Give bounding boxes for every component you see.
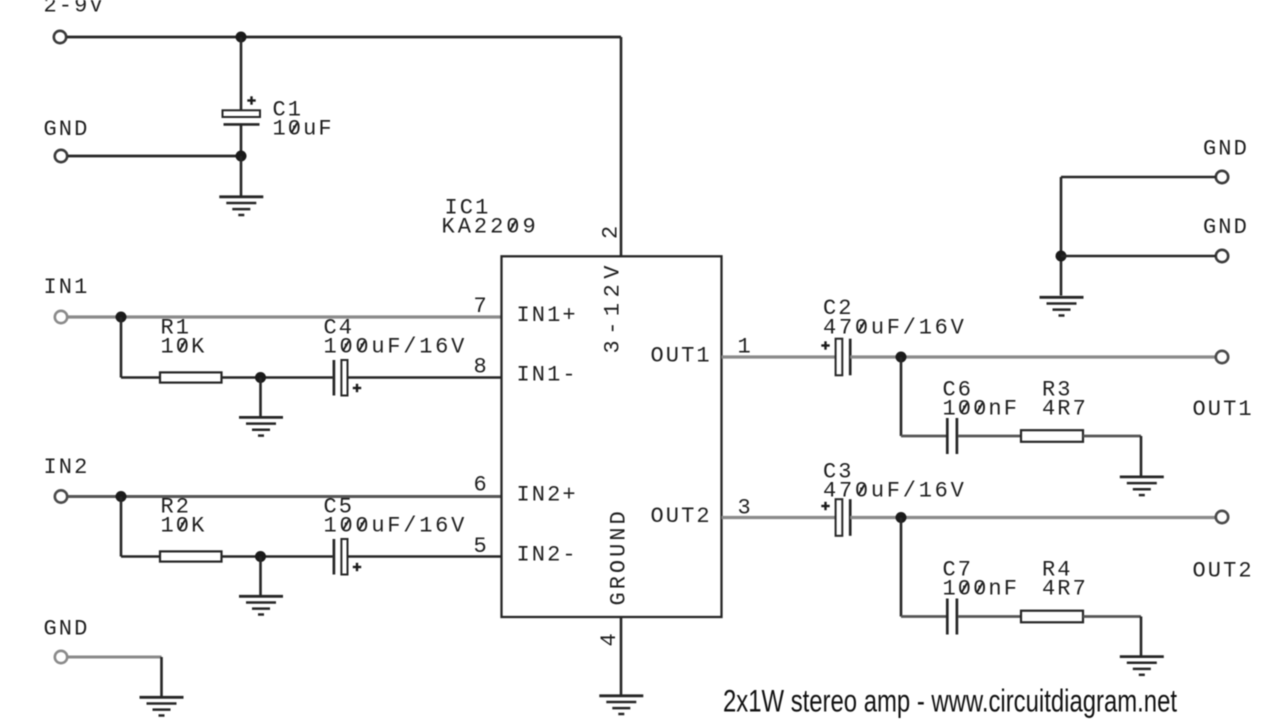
svg-text:OUT2: OUT2	[1193, 559, 1254, 584]
svg-text:GND: GND	[44, 117, 90, 142]
svg-text:GND: GND	[1203, 215, 1249, 240]
svg-text:100nF: 100nF	[943, 577, 1020, 602]
svg-text:IN1+: IN1+	[517, 303, 578, 328]
svg-text:IN1: IN1	[44, 275, 90, 300]
svg-text:10K: 10K	[161, 335, 207, 360]
svg-text:6: 6	[474, 473, 489, 498]
svg-text:OUT1: OUT1	[1193, 397, 1254, 422]
svg-text:470uF/16V: 470uF/16V	[823, 479, 967, 504]
svg-text:IN1-: IN1-	[517, 363, 578, 388]
svg-text:100nF: 100nF	[943, 397, 1020, 422]
svg-text:2-9V: 2-9V	[44, 0, 105, 19]
svg-text:IN2-: IN2-	[517, 543, 578, 568]
svg-text:OUT1: OUT1	[651, 344, 712, 369]
svg-text:GROUND: GROUND	[607, 508, 632, 605]
svg-text:1: 1	[738, 335, 753, 360]
svg-text:4R7: 4R7	[1042, 397, 1088, 422]
svg-text:3-12V: 3-12V	[601, 260, 626, 354]
svg-text:2: 2	[599, 224, 624, 239]
svg-text:10uF: 10uF	[273, 117, 334, 142]
svg-text:3: 3	[738, 496, 753, 521]
svg-text:8: 8	[474, 355, 489, 380]
svg-text:OUT2: OUT2	[651, 504, 712, 529]
svg-text:2x1W stereo amp - www.circuitd: 2x1W stereo amp - www.circuitdiagram.net	[723, 683, 1177, 719]
svg-text:5: 5	[474, 534, 489, 559]
svg-text:KA2209: KA2209	[442, 215, 539, 240]
svg-text:IN2+: IN2+	[517, 483, 578, 508]
svg-text:IN2: IN2	[44, 455, 90, 480]
svg-text:470uF/16V: 470uF/16V	[823, 316, 967, 341]
svg-text:GND: GND	[44, 617, 90, 642]
svg-text:GND: GND	[1203, 137, 1249, 162]
svg-text:4R7: 4R7	[1042, 577, 1088, 602]
svg-text:7: 7	[474, 294, 489, 319]
svg-text:4: 4	[597, 631, 622, 646]
svg-text:10K: 10K	[161, 514, 207, 539]
